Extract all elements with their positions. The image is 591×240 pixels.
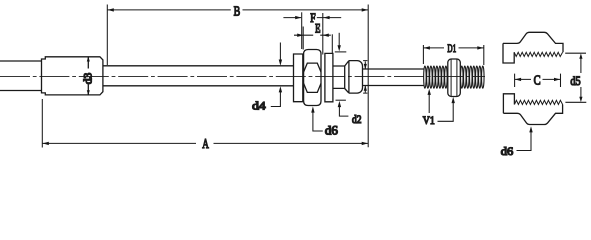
- hex nut V1: [448, 59, 461, 97]
- dimension d2 upper tick and arrow: [332, 33, 346, 53]
- threads right group: [461, 66, 485, 88]
- end fitting: [42, 57, 103, 95]
- adjuster right flange: [325, 53, 333, 101]
- adjuster left flange: [294, 54, 303, 102]
- dimension C: [515, 73, 561, 88]
- rod: [363, 69, 424, 86]
- centerline: [0, 76, 485, 78]
- dimension d6 clevis leader: [501, 126, 533, 158]
- clevis top half: [503, 32, 563, 63]
- svg-text:d4: d4: [252, 99, 266, 113]
- dimension d4: [252, 43, 282, 113]
- outer cable: [0, 61, 42, 91]
- adjuster hex chamfer top: [304, 63, 321, 72]
- dimension d6 main leader: [311, 106, 338, 137]
- short sleeve cylinder: [333, 66, 345, 88]
- dimension F: [283, 11, 341, 49]
- svg-text:A: A: [202, 137, 209, 152]
- adjuster hex chamfer bottom: [304, 83, 321, 92]
- adjuster hex body: [304, 50, 321, 106]
- dimension d2 leader: [336, 100, 362, 126]
- dimension B: [107, 4, 368, 19]
- svg-text:d5: d5: [570, 74, 580, 88]
- clevis top internal thread zigzag: [514, 52, 562, 56]
- svg-text:d2: d2: [352, 114, 362, 126]
- dimension d3: [82, 56, 94, 95]
- label V1 leaders: [423, 89, 455, 127]
- wire tube (long shaft): [103, 66, 294, 86]
- dimension B extension line left: [106, 5, 108, 66]
- dimension A and B shared right extension: [367, 5, 369, 148]
- dimension D1: [423, 43, 483, 65]
- dimension E: [294, 13, 331, 55]
- threads left group: [424, 66, 448, 88]
- svg-text:d6: d6: [325, 123, 338, 137]
- dimension d5: [565, 53, 586, 102]
- svg-text:E: E: [315, 22, 321, 36]
- clevis bottom half: [503, 94, 562, 125]
- dimension A extension left: [41, 99, 43, 148]
- ball knob: [345, 61, 363, 94]
- svg-text:d6: d6: [501, 144, 514, 157]
- clevis bottom internal thread zigzag: [514, 100, 562, 104]
- svg-text:D1: D1: [447, 43, 456, 55]
- svg-text:C: C: [534, 73, 541, 88]
- svg-text:V1: V1: [423, 115, 435, 127]
- dimension d2 ticks and arrows at knob: [363, 61, 367, 94]
- dimension A: [42, 137, 368, 152]
- svg-text:d3: d3: [82, 73, 94, 85]
- svg-text:B: B: [234, 4, 241, 19]
